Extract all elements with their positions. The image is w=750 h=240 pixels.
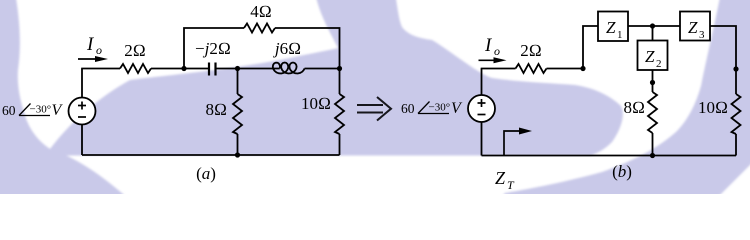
current Io arrow (a) xyxy=(78,56,108,62)
svg-text:60: 60 xyxy=(401,101,415,116)
wire: 10ohm to rail xyxy=(339,134,341,155)
svg-text:−j2Ω: −j2Ω xyxy=(195,39,231,58)
circuit (b) xyxy=(468,12,741,156)
wire: node D up to Z1 branch xyxy=(583,26,598,69)
resistor 10ohm (a) xyxy=(335,94,344,134)
right wedge blob xyxy=(498,0,750,202)
wire: left vertical source top xyxy=(81,69,83,98)
svg-text:8Ω: 8Ω xyxy=(205,100,227,119)
svg-text:(b): (b) xyxy=(612,162,632,181)
resistor 10ohm (b) xyxy=(732,94,741,134)
wire: source bottom (b) xyxy=(481,122,483,156)
wire: resistor to node A xyxy=(151,68,209,70)
wire: 8ohm to rail xyxy=(237,134,239,155)
wire: bottom rail (a) xyxy=(82,154,340,156)
svg-text:o: o xyxy=(96,43,102,57)
svg-text:Z: Z xyxy=(495,168,506,188)
svg-text:2Ω: 2Ω xyxy=(124,41,146,60)
node rail dot (a) xyxy=(235,152,240,157)
wire: Z3 right and down to 10ohm xyxy=(710,26,736,94)
resistor 4ohm xyxy=(244,24,275,33)
node B dot xyxy=(235,66,240,71)
impedance ZT arrow xyxy=(504,128,532,156)
wire: Z2 down to 8ohm xyxy=(652,70,654,92)
svg-text:o: o xyxy=(494,44,500,58)
svg-text:−30°: −30° xyxy=(30,104,52,116)
wire: 4ohm branch xyxy=(184,28,244,69)
svg-text:j6Ω: j6Ω xyxy=(273,39,301,58)
resistor 2ohm (a) xyxy=(120,64,151,73)
node F dot (Z2 bottom) xyxy=(650,80,655,85)
inductor j6ohm xyxy=(273,63,305,74)
wire: resistor to node D xyxy=(547,68,584,70)
wire: 10ohm to rail (b) xyxy=(735,134,737,156)
impedance Z3 box xyxy=(680,12,710,41)
node E dot xyxy=(650,23,655,28)
svg-text:Z: Z xyxy=(688,18,698,37)
source V1 plus sign xyxy=(78,102,86,118)
svg-text:Z: Z xyxy=(606,18,616,37)
label source (a) 60 angle -30 V xyxy=(2,102,64,119)
source V1 minus sign xyxy=(78,116,86,118)
svg-text:8Ω: 8Ω xyxy=(623,98,645,117)
node A dot xyxy=(181,66,186,71)
wire: Z1 to node E xyxy=(628,25,680,27)
wire: node C to 10ohm xyxy=(339,69,341,95)
circuit (a) xyxy=(69,24,345,156)
label source (b) 60 angle -30 V xyxy=(401,100,463,117)
svg-text:3: 3 xyxy=(699,29,705,41)
wire: main top (b) xyxy=(481,68,516,70)
resistor 8ohm (a) xyxy=(233,94,242,134)
source V1 circle xyxy=(69,98,96,125)
source V2 circle xyxy=(468,95,495,122)
wire: 4ohm branch right xyxy=(275,28,340,69)
center wave blob xyxy=(45,0,623,156)
node G dot (right vertical) xyxy=(733,66,738,71)
implication arrow xyxy=(357,97,391,121)
svg-text:Z: Z xyxy=(645,47,655,66)
resistor 8ohm (b) xyxy=(648,92,657,133)
impedance Z1 box xyxy=(598,12,628,42)
source V2 plus sign xyxy=(478,99,486,115)
capacitor -j2ohm plates xyxy=(208,63,210,76)
svg-text:10Ω: 10Ω xyxy=(698,98,728,117)
wire: inductor to node C xyxy=(305,68,340,70)
svg-text:4Ω: 4Ω xyxy=(250,2,272,21)
impedance Z2 box xyxy=(638,41,668,71)
svg-text:2: 2 xyxy=(656,58,662,70)
node D dot xyxy=(580,66,585,71)
svg-text:2Ω: 2Ω xyxy=(520,41,542,60)
wire: main top from source to resistor xyxy=(81,68,120,70)
svg-text:60: 60 xyxy=(2,103,16,118)
wire: source top (b) xyxy=(481,69,483,96)
resistor 2ohm (b) xyxy=(516,64,547,73)
svg-text:(a): (a) xyxy=(196,164,216,183)
source V2 minus sign xyxy=(478,114,486,116)
svg-text:−30°: −30° xyxy=(429,102,451,114)
node rail dot (b) xyxy=(650,153,655,158)
wire: 8ohm to rail (b) xyxy=(652,133,654,156)
wire: node B to 8ohm xyxy=(237,69,239,95)
wire: node E down to Z2 xyxy=(652,26,654,41)
svg-text:10Ω: 10Ω xyxy=(301,94,331,113)
wire: bottom rail (b) xyxy=(482,155,737,157)
wire: left vertical source bottom xyxy=(81,125,83,156)
current Io arrow (b) xyxy=(479,57,507,63)
wire: capacitor to node B xyxy=(216,68,280,70)
left blob xyxy=(0,0,129,202)
svg-text:1: 1 xyxy=(617,29,623,41)
node C dot xyxy=(337,66,342,71)
